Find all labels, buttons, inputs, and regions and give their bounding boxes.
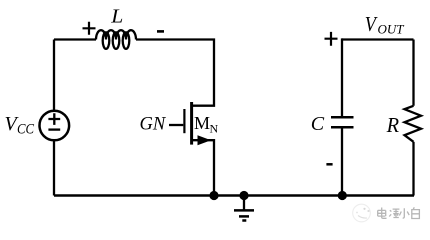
wire left vertical upper (Vcc top) <box>53 40 55 111</box>
svg-text:N: N <box>210 122 219 136</box>
watermark text 电源小白 <box>378 207 420 218</box>
svg-text:C: C <box>311 113 325 135</box>
plus sign (inductor left) <box>83 22 96 35</box>
minus sign (output bottom) <box>326 163 332 166</box>
svg-text:V: V <box>365 13 379 37</box>
transistor MN source arrowhead <box>198 135 212 145</box>
transistor MN source wire with arrow <box>193 140 214 195</box>
capacitor C top wire <box>341 38 343 116</box>
wire left vertical lower (Vcc bottom) <box>53 140 55 195</box>
svg-text:OUT: OUT <box>378 22 405 37</box>
node junction dot (cap to rail) <box>338 191 347 200</box>
svg-text:CC: CC <box>17 122 35 138</box>
inductor L coil <box>96 30 136 49</box>
transistor MN channel bar <box>190 102 193 145</box>
minus sign (inductor right) <box>157 30 164 33</box>
svg-text:R: R <box>386 115 400 137</box>
svg-text:M: M <box>194 113 210 133</box>
transistor MN gate wire <box>169 124 183 126</box>
node junction dot (source to rail) <box>209 191 218 200</box>
voltage source Vcc <box>40 111 70 141</box>
wire top (inductor to drain corner) and drain down <box>136 40 214 106</box>
wire bottom rail <box>54 194 414 196</box>
watermark icon <box>353 204 371 222</box>
plus sign (output top) <box>325 32 338 46</box>
svg-text:L: L <box>110 4 123 27</box>
wire top-right (output section) <box>342 38 414 40</box>
wire top-left (Vcc to inductor) <box>54 38 96 40</box>
capacitor C plates <box>331 117 354 127</box>
node junction dot (ground tap) <box>239 191 248 200</box>
resistor R top wire <box>412 40 414 106</box>
transistor MN gate bar <box>183 109 185 133</box>
ground <box>234 196 254 221</box>
resistor R bottom wire <box>412 142 414 196</box>
resistor R zigzag <box>405 106 422 142</box>
capacitor C bottom wire <box>341 128 343 196</box>
svg-text:GN: GN <box>140 114 167 134</box>
